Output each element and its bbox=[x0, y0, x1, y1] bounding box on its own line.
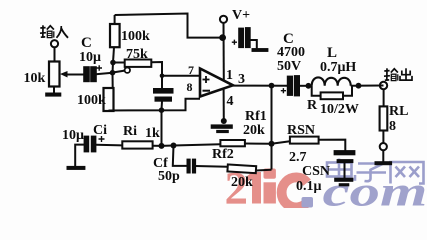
svg-text:C: C bbox=[81, 35, 92, 51]
svg-text:50p: 50p bbox=[158, 169, 180, 184]
svg-text:20k: 20k bbox=[231, 175, 253, 190]
svg-text:2.7: 2.7 bbox=[289, 150, 307, 165]
svg-text:75k: 75k bbox=[126, 47, 148, 62]
svg-text:20k: 20k bbox=[243, 123, 265, 138]
svg-text:Rf1: Rf1 bbox=[245, 109, 267, 124]
svg-text:R: R bbox=[307, 98, 318, 113]
svg-text:7: 7 bbox=[188, 63, 194, 77]
svg-text:0.1μ: 0.1μ bbox=[296, 179, 322, 194]
svg-text:Ri: Ri bbox=[123, 124, 137, 139]
svg-text:50V: 50V bbox=[277, 59, 301, 74]
svg-text:Rf2: Rf2 bbox=[212, 147, 234, 162]
svg-text:CSN: CSN bbox=[302, 164, 330, 179]
svg-text:RL: RL bbox=[389, 104, 408, 119]
svg-text:100k: 100k bbox=[77, 93, 106, 108]
svg-text:10μ: 10μ bbox=[79, 50, 101, 65]
svg-text:V+: V+ bbox=[232, 8, 250, 23]
svg-text:10k: 10k bbox=[24, 71, 46, 86]
svg-text:8: 8 bbox=[389, 119, 396, 134]
svg-text:8: 8 bbox=[187, 80, 193, 94]
svg-text:4: 4 bbox=[227, 94, 234, 109]
svg-text:1k: 1k bbox=[145, 126, 160, 141]
svg-text:3: 3 bbox=[238, 72, 245, 87]
svg-text:Ci: Ci bbox=[93, 123, 107, 138]
svg-text:4700: 4700 bbox=[277, 45, 305, 60]
svg-text:0.7μH: 0.7μH bbox=[320, 60, 356, 75]
svg-text:100k: 100k bbox=[121, 29, 150, 44]
svg-text:L: L bbox=[327, 45, 337, 61]
svg-text:RSN: RSN bbox=[287, 123, 315, 138]
svg-text:1: 1 bbox=[226, 68, 233, 83]
svg-text:10μ: 10μ bbox=[62, 128, 84, 143]
svg-text:10/2W: 10/2W bbox=[320, 102, 359, 117]
